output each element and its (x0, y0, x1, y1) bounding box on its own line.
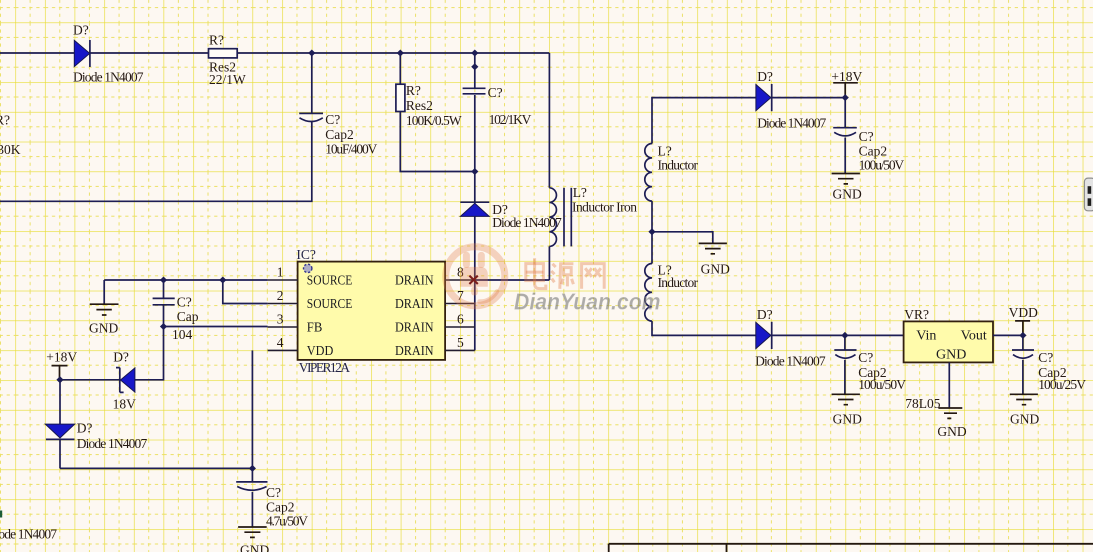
wire pin2 link (223, 280, 268, 304)
svg-text:3: 3 (277, 312, 284, 327)
svg-text:GND: GND (701, 262, 730, 277)
left edge green tick (0, 511, 2, 518)
svg-text:C?: C? (266, 485, 281, 500)
svg-text:78L05: 78L05 (905, 396, 940, 411)
ground GND2 bottom (238, 527, 267, 537)
wire L1 bottom (651, 201, 653, 232)
svg-text:4: 4 (277, 335, 284, 350)
svg-text:100K/0.5W: 100K/0.5W (406, 113, 462, 128)
junction bottom rail (249, 465, 256, 472)
svg-text:Inductor: Inductor (658, 275, 699, 290)
diode D2 1N4007 vertical (460, 202, 489, 216)
svg-text:VDD: VDD (307, 344, 334, 359)
IC pin 1 (268, 279, 298, 281)
svg-text:Diode 1N4007: Diode 1N4007 (755, 353, 826, 368)
svg-text:4.7u/50V: 4.7u/50V (266, 514, 308, 529)
wire VR ground pin (948, 362, 950, 408)
svg-text:SOURCE: SOURCE (307, 297, 353, 312)
wire pin8 to transformer (475, 279, 550, 281)
svg-text:D?: D? (757, 69, 773, 84)
wire R100K top lead (399, 53, 401, 85)
svg-text:22/1W: 22/1W (209, 72, 246, 87)
svg-text:GND: GND (240, 543, 269, 552)
ground GND6 (938, 408, 962, 418)
wire cap104 to zener (135, 327, 164, 380)
svg-text:Cap2: Cap2 (859, 144, 888, 159)
junction VDD node (1019, 332, 1026, 339)
svg-text:+18V: +18V (46, 350, 77, 365)
ground GND1 (90, 304, 119, 315)
capacitor C3 104 (153, 280, 175, 327)
capacitor C7 100u/25V (1012, 335, 1034, 394)
svg-text:GND: GND (833, 187, 862, 202)
junction secondary center tap (648, 228, 655, 235)
svg-text:Diode 1N4007: Diode 1N4007 (77, 436, 148, 451)
wire cap102 top lead (474, 53, 476, 88)
capacitor C1 10uF/400V (299, 113, 323, 121)
svg-text:18V: 18V (113, 397, 137, 412)
svg-text:R?: R? (0, 112, 10, 127)
svg-text:C?: C? (858, 350, 873, 365)
svg-text:Cap: Cap (177, 309, 199, 324)
watermark char yuan 源 (551, 264, 573, 289)
wire +18V to diode D4 (59, 380, 61, 424)
watermark plug stem (471, 287, 478, 296)
capacitor C6 100u/50V (834, 335, 856, 394)
svg-text:SOURCE: SOURCE (307, 274, 353, 289)
capacitor C2 102/1KV (463, 88, 486, 94)
svg-text:Inductor: Inductor (658, 158, 699, 173)
junction top rail at R100K (397, 50, 404, 57)
svg-text:Diode 1N4007: Diode 1N4007 (73, 70, 144, 85)
svg-text:Vout: Vout (961, 329, 987, 344)
svg-text:Res2: Res2 (406, 98, 433, 113)
svg-text:104: 104 (172, 327, 193, 342)
svg-text:2: 2 (277, 288, 284, 303)
IC pin 2 (268, 303, 298, 305)
regulator U2 78L05 body (904, 321, 993, 362)
no-ERC marker red X pin8 (469, 276, 477, 284)
svg-text:GND: GND (936, 348, 966, 363)
svg-text:+18V: +18V (831, 69, 862, 84)
diode D4 1N4007 down (45, 424, 74, 439)
wire VDD pin4 drop (251, 350, 253, 468)
svg-text:DRAIN: DRAIN (395, 297, 434, 312)
title block border (609, 544, 1093, 552)
capacitor C5 100u/50V (833, 98, 857, 174)
wire drain bus (474, 95, 476, 350)
svg-text:Diode 1N4007: Diode 1N4007 (492, 215, 562, 230)
watermark plug prong right (478, 252, 485, 268)
junction C6 node (841, 332, 848, 339)
svg-text:D?: D? (113, 350, 129, 365)
svg-text:R?: R? (209, 33, 224, 48)
capacitor C4 4.7u/50V (236, 468, 267, 527)
power port +18V right (833, 83, 858, 98)
watermark char dian 电 (526, 258, 546, 288)
svg-text:C?: C? (177, 294, 192, 309)
wire top rail y=53 (0, 52, 549, 54)
junction zener/+18V (56, 376, 63, 383)
wire GND drop from pin1 net (103, 280, 105, 304)
svg-text:Diode 1N4007: Diode 1N4007 (757, 115, 826, 130)
wire FB net (164, 326, 268, 328)
transformer L3 inductor-iron winding (549, 188, 556, 247)
junction pin1/pin2 (219, 277, 226, 284)
wire cap10uF bottom + left return (0, 122, 312, 201)
diode D6 1N4007 bottom right (756, 322, 772, 349)
svg-text:D?: D? (77, 421, 93, 436)
wire L1 top lead (652, 98, 756, 144)
watermark smile arc (480, 292, 498, 302)
junction loop bottom (471, 168, 478, 175)
svg-text:D?: D? (73, 22, 89, 37)
zener D3 18V (116, 368, 135, 393)
svg-text:VIPER12A: VIPER12A (299, 360, 350, 375)
wire pin1 net (104, 279, 267, 281)
svg-text:FB: FB (307, 321, 323, 336)
IC U1 part marker circle (304, 264, 312, 272)
wire bottom rail (60, 467, 252, 469)
wire R100K bottom leg (400, 112, 475, 172)
wire cap10uF top lead (311, 53, 313, 113)
svg-text:C?: C? (488, 85, 503, 100)
junction top rail at cap102 (471, 50, 478, 57)
svg-text:DRAIN: DRAIN (395, 344, 434, 359)
resistor R1 22/1W (209, 49, 238, 58)
IC pin 3 (268, 326, 298, 328)
svg-text:C?: C? (1038, 350, 1053, 365)
watermark plug body (460, 267, 488, 287)
junction cap102 lead (471, 63, 478, 70)
svg-text:DRAIN: DRAIN (395, 274, 434, 289)
svg-text:VDD: VDD (1009, 305, 1038, 320)
wire transformer primary drop (548, 53, 550, 188)
junction pin1/cap104 (160, 277, 167, 284)
wire D4 to bottom rail (59, 439, 61, 468)
svg-text:100u/50V: 100u/50V (858, 377, 906, 392)
svg-text:VR?: VR? (904, 307, 929, 322)
wire primary bottom lead (548, 246, 550, 280)
svg-text:C?: C? (859, 129, 874, 144)
wire L2 bottom lead (652, 321, 756, 335)
watermark plug prong left (463, 252, 470, 268)
svg-text:L?: L? (658, 144, 672, 159)
svg-text:DRAIN: DRAIN (395, 321, 434, 336)
wire center tap to ground (652, 232, 713, 244)
svg-text:1: 1 (277, 265, 284, 280)
svg-text:102/1KV: 102/1KV (489, 112, 532, 127)
IC pin 7 (445, 303, 475, 305)
wire D5 to +18V node (772, 97, 846, 99)
svg-text:D?: D? (757, 307, 773, 322)
svg-text:C?: C? (325, 112, 340, 127)
svg-text:5: 5 (457, 335, 464, 350)
transformer core lines (564, 188, 571, 247)
ground GND3 (699, 243, 727, 253)
svg-text:Vin: Vin (916, 329, 936, 344)
svg-text:GND: GND (89, 321, 118, 336)
svg-text:330K: 330K (0, 142, 21, 157)
wire zener net (60, 379, 120, 381)
junction +18V node (842, 94, 849, 101)
ground GND7 (1010, 394, 1038, 404)
svg-text:DianYuan.com: DianYuan.com (514, 289, 661, 315)
inductor L2 (645, 264, 652, 322)
wire D6 to VR (772, 334, 904, 336)
IC pin 5 (445, 349, 475, 351)
power port VDD (1015, 321, 1030, 336)
ground GND5 (832, 394, 860, 404)
svg-text:GND: GND (833, 411, 862, 426)
power port +18V left (52, 366, 68, 380)
IC U1 VIPER12A body (298, 262, 446, 360)
diode D1 1N4007 top-left (74, 40, 90, 67)
svg-text:Cap2: Cap2 (325, 127, 354, 142)
wire Vout net (993, 334, 1023, 336)
svg-text:Diode 1N4007: Diode 1N4007 (0, 527, 57, 542)
svg-text:Cap2: Cap2 (266, 499, 295, 514)
junction FB (160, 323, 167, 330)
svg-text:GND: GND (1010, 411, 1039, 426)
svg-text:R?: R? (406, 83, 421, 98)
junction top rail at cap10uF (308, 50, 315, 57)
watermark logo ring (446, 247, 505, 306)
svg-text:100u/50V: 100u/50V (859, 157, 905, 172)
svg-text:100u/25V: 100u/25V (1038, 377, 1086, 392)
right edge panel handle (1084, 178, 1093, 211)
resistor R2 100K/0.5W (396, 84, 405, 111)
svg-text:L?: L? (573, 185, 587, 200)
inductor L1 (645, 144, 652, 202)
ground GND4 (832, 174, 860, 184)
diode D5 1N4007 top right (756, 84, 772, 111)
svg-text:Inductor Iron: Inductor Iron (572, 200, 637, 215)
IC pin 4 (268, 349, 298, 351)
IC pin 6 (445, 326, 475, 328)
svg-text:IC?: IC? (296, 247, 316, 262)
svg-text:10uF/400V: 10uF/400V (325, 142, 377, 157)
svg-text:6: 6 (457, 312, 464, 327)
watermark char wang 网 (582, 264, 605, 289)
svg-text:GND: GND (937, 424, 966, 439)
wire L2 top lead (651, 232, 653, 264)
IC pin 8 (445, 279, 475, 281)
